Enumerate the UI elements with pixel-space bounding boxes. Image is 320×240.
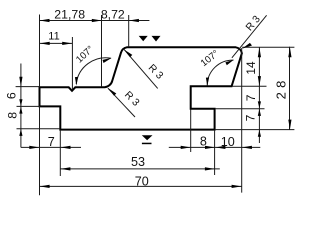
extension line C x=128.7 [128, 15, 130, 47]
svg-text:8,72: 8,72 [101, 8, 125, 22]
arrow tip 128.9 pointing left [129, 19, 139, 22]
dimension line 21,78 and 8,72 y=20.5 [40, 20, 150, 22]
arrow tip (20.9,106.4) pointing up from below [19, 107, 22, 114]
arrow tip (259.4,108.6) pointing up from below [258, 109, 261, 116]
arrow tip 39.5 pointing left [40, 19, 50, 22]
28 vertical dimension line x=289.9 [289, 47, 291, 130]
arrow tip 72.2 pointing right [62, 42, 72, 45]
leader arrow left V bottom [108, 88, 116, 96]
angle arc 107 right [207, 60, 233, 86]
dimension 53 line y=169.3 [60, 168, 220, 170]
step surface extension y=86.2 [232, 85, 267, 87]
bottom edge extension y=129.6 [215, 129, 294, 131]
svg-text:7: 7 [48, 135, 55, 149]
extension line V-notch x=72.4 [71, 37, 73, 90]
svg-text:7: 7 [244, 114, 258, 121]
extension line A x=39.5 (left edge, above profile) [39, 15, 41, 87]
dimension line 11 y=43.4 [40, 42, 73, 44]
top edge extension to the right y=47.3 [242, 46, 294, 48]
arrow tip (20.9,86.7) pointing down from above [19, 77, 22, 87]
svg-text:28: 28 [274, 76, 289, 99]
arrow tip 215.2 pointing right [205, 146, 215, 149]
dimension 70 line y=185.8 [40, 185, 242, 187]
extension line A x=39.5 (below profile to 70-dim) [39, 107, 41, 196]
arrow tip 190.9 pointing right [181, 146, 191, 149]
arrow tip (289.9,47.3) up [288, 47, 291, 57]
notch top extension y=108.7 [215, 108, 265, 110]
extension line x=190.7 below notch [190, 110, 192, 153]
arrow tip (259.4,47.3) pointing up [258, 47, 261, 57]
surface mark triangle 2 on top line [152, 36, 161, 42]
svg-text:14: 14 [244, 61, 258, 75]
leader arrow left crest [124, 49, 132, 57]
arrow tip 241.9 pointing left [242, 146, 252, 149]
bottom dimension 8 and 10 line y=147.4 [169, 146, 260, 148]
arrow tip 214.9 pointing right [205, 167, 215, 170]
arrow tip (289.9,129.6) down [288, 120, 291, 130]
arrow tip 39.6 pointing left [40, 185, 50, 188]
extension line x=60.3 below bottom [59, 130, 61, 176]
arrow tip (20.9,128.7) pointing up from below [19, 129, 22, 136]
left extension y=128.7 [17, 128, 61, 130]
surface mark underline bar [142, 143, 152, 145]
extension line x=241.7 right crest down [241, 48, 243, 193]
arrow tip 40 pointing left [40, 42, 50, 45]
leader R3 left V bottom [108, 88, 135, 117]
arrow tip (259.4,108.6) pointing down from above [258, 101, 261, 108]
arc arrow lower-left right-side [206, 78, 209, 87]
extension line x=215 below bottom corner [214, 130, 216, 175]
arrow tip 60.5 pointing left from outside right [61, 146, 71, 149]
surface mark triangle below bottom edge [142, 135, 153, 140]
svg-text:70: 70 [135, 174, 149, 188]
leader R3 right crest [232, 15, 267, 58]
svg-text:8: 8 [6, 112, 20, 119]
leader R3 left crest [124, 50, 158, 89]
arc arrow upper-right [103, 58, 112, 63]
svg-text:10: 10 [221, 135, 235, 149]
surface mark triangle 1 on top line [139, 36, 148, 41]
extension line B x=102 [101, 15, 103, 87]
svg-text:21,78: 21,78 [54, 8, 85, 22]
arrow tip 101.8 pointing right [92, 19, 102, 22]
left extension y=86.6 [16, 86, 40, 88]
angle arc 107 left [76, 58, 111, 84]
svg-text:8: 8 [200, 135, 207, 149]
arc arrow upper-right right-side [225, 60, 233, 66]
profile outline of rail cross-section [40, 47, 242, 129]
svg-text:7: 7 [244, 94, 258, 101]
right vertical dimension line x=259.4 [258, 47, 260, 143]
arrow tip 241.6 pointing right [232, 185, 242, 188]
arrow tip 60.4 pointing left [60, 167, 70, 170]
arrow tip 39.5 pointing right from outside left [29, 146, 39, 149]
leader arrow right crest [242, 43, 252, 49]
left vertical dimension line x=20.9 [20, 64, 22, 148]
arrow tip (259.4,129.6) pointing up from below [258, 130, 261, 137]
svg-text:11: 11 [48, 30, 59, 42]
svg-text:53: 53 [131, 155, 145, 169]
bottom-left dimension 7 line y=147.4 [21, 146, 81, 148]
arrow tip (20.9,106.4) pointing down from above [19, 99, 22, 106]
arc arrow lower-left [75, 77, 78, 86]
arrow tip 215.4 pointing left [215, 146, 225, 149]
left extension y=106.4 [17, 105, 41, 107]
arrow tip (259.4,86.1) pointing down [258, 76, 261, 86]
svg-text:6: 6 [5, 92, 19, 99]
